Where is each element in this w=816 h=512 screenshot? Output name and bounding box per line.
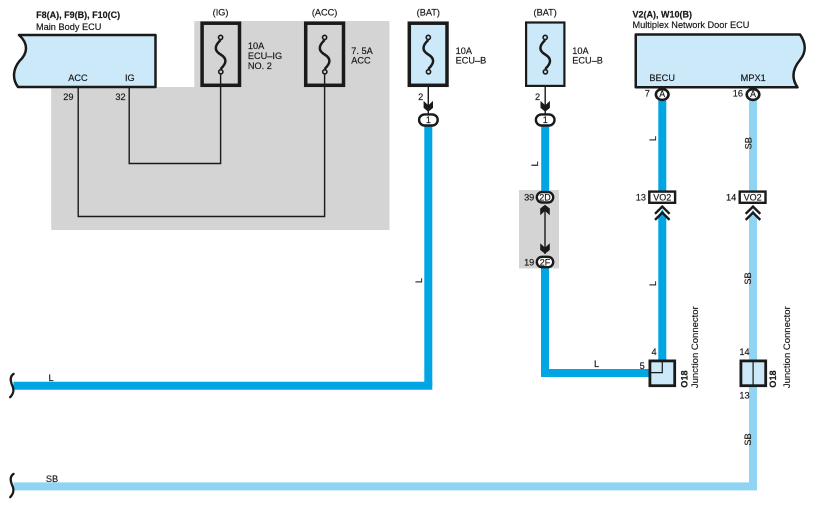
svg-text:L: L — [594, 359, 599, 369]
svg-text:10A: 10A — [248, 41, 265, 51]
svg-text:13: 13 — [636, 193, 646, 203]
svg-text:10A: 10A — [456, 46, 473, 56]
svg-text:10A: 10A — [572, 46, 589, 56]
svg-text:VO2: VO2 — [744, 193, 762, 203]
svg-text:7: 7 — [645, 89, 650, 99]
svg-text:L: L — [48, 373, 53, 383]
svg-text:Junction Connector: Junction Connector — [690, 306, 701, 388]
svg-text:1: 1 — [543, 115, 548, 125]
svg-text:14: 14 — [739, 347, 749, 357]
svg-text:ACC: ACC — [68, 73, 88, 83]
svg-text:L: L — [530, 161, 540, 166]
svg-text:VO2: VO2 — [653, 193, 671, 203]
svg-text:32: 32 — [115, 92, 125, 102]
svg-text:SB: SB — [743, 433, 753, 445]
svg-text:Main Body ECU: Main Body ECU — [36, 22, 101, 32]
svg-text:2: 2 — [418, 92, 423, 102]
svg-text:SB: SB — [46, 474, 58, 484]
svg-text:(IG): (IG) — [213, 8, 229, 18]
svg-text:(BAT): (BAT) — [417, 8, 440, 18]
svg-text:39: 39 — [524, 193, 534, 203]
svg-text:16: 16 — [733, 89, 743, 99]
svg-text:MPX1: MPX1 — [741, 73, 766, 83]
svg-text:(ACC): (ACC) — [312, 8, 338, 18]
svg-text:ECU–B: ECU–B — [572, 56, 603, 66]
svg-text:19: 19 — [524, 257, 534, 267]
svg-text:2D: 2D — [539, 193, 551, 203]
svg-text:29: 29 — [63, 92, 73, 102]
svg-text:L: L — [648, 136, 658, 141]
svg-text:BECU: BECU — [649, 73, 675, 83]
svg-text:Multiplex Network Door ECU: Multiplex Network Door ECU — [633, 20, 750, 30]
svg-text:A: A — [659, 89, 665, 99]
svg-text:2: 2 — [535, 92, 540, 102]
svg-text:13: 13 — [739, 390, 749, 400]
svg-text:L: L — [414, 278, 424, 283]
svg-text:(BAT): (BAT) — [534, 8, 557, 18]
svg-text:Junction Connector: Junction Connector — [782, 306, 793, 388]
svg-text:SB: SB — [743, 272, 753, 284]
svg-text:IG: IG — [125, 73, 135, 83]
svg-text:4: 4 — [651, 347, 656, 357]
svg-text:F8(A), F9(B), F10(C): F8(A), F9(B), F10(C) — [36, 10, 120, 20]
svg-text:ACC: ACC — [351, 56, 371, 66]
svg-text:O18: O18 — [768, 370, 778, 387]
svg-text:ECU–IG: ECU–IG — [248, 51, 282, 61]
svg-text:O18: O18 — [680, 370, 690, 387]
svg-text:1: 1 — [426, 115, 431, 125]
svg-text:2F: 2F — [540, 257, 551, 267]
svg-text:A: A — [750, 89, 756, 99]
svg-text:SB: SB — [744, 137, 754, 149]
svg-text:5: 5 — [640, 361, 645, 371]
svg-text:ECU–B: ECU–B — [456, 56, 487, 66]
svg-text:NO. 2: NO. 2 — [248, 61, 272, 71]
svg-text:L: L — [648, 281, 658, 286]
svg-text:14: 14 — [726, 193, 736, 203]
svg-text:7. 5A: 7. 5A — [351, 46, 373, 56]
svg-text:V2(A), W10(B): V2(A), W10(B) — [633, 10, 693, 20]
